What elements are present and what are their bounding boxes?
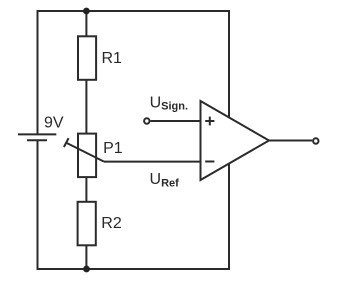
potentiometer P1: [64, 134, 104, 178]
svg-text:R1: R1: [102, 50, 123, 67]
wire R2 to bottom rail: [85, 245, 87, 269]
op-amp U1 inverting pin - mark: [205, 161, 214, 163]
node A junction dot top: [83, 8, 90, 15]
battery B1 negative plate: [27, 139, 47, 141]
node B junction dot bottom: [83, 266, 90, 273]
svg-text:USign.: USign.: [150, 95, 188, 113]
svg-text:9V: 9V: [44, 114, 64, 131]
terminal input circle: [144, 118, 149, 123]
wire R1 to P1: [85, 80, 87, 134]
wire output: [269, 140, 312, 142]
resistor R2: [78, 202, 96, 246]
resistor R1: [78, 36, 96, 80]
battery B1 positive plate: [18, 133, 56, 135]
op-amp U1 noninverting pin + mark: [205, 117, 214, 126]
wire noninverting input: [150, 120, 200, 122]
wire P1 to R2: [85, 177, 87, 202]
svg-text:P1: P1: [103, 140, 123, 157]
wire center column top: [85, 11, 87, 36]
wire bottom rail: [38, 140, 230, 269]
op-amp U1: [201, 101, 270, 180]
wire top rail: [38, 11, 230, 134]
svg-text:R2: R2: [101, 215, 122, 232]
terminal output circle: [313, 138, 318, 143]
svg-text:URef: URef: [150, 171, 180, 189]
wire wiper to inverting input: [104, 161, 201, 163]
